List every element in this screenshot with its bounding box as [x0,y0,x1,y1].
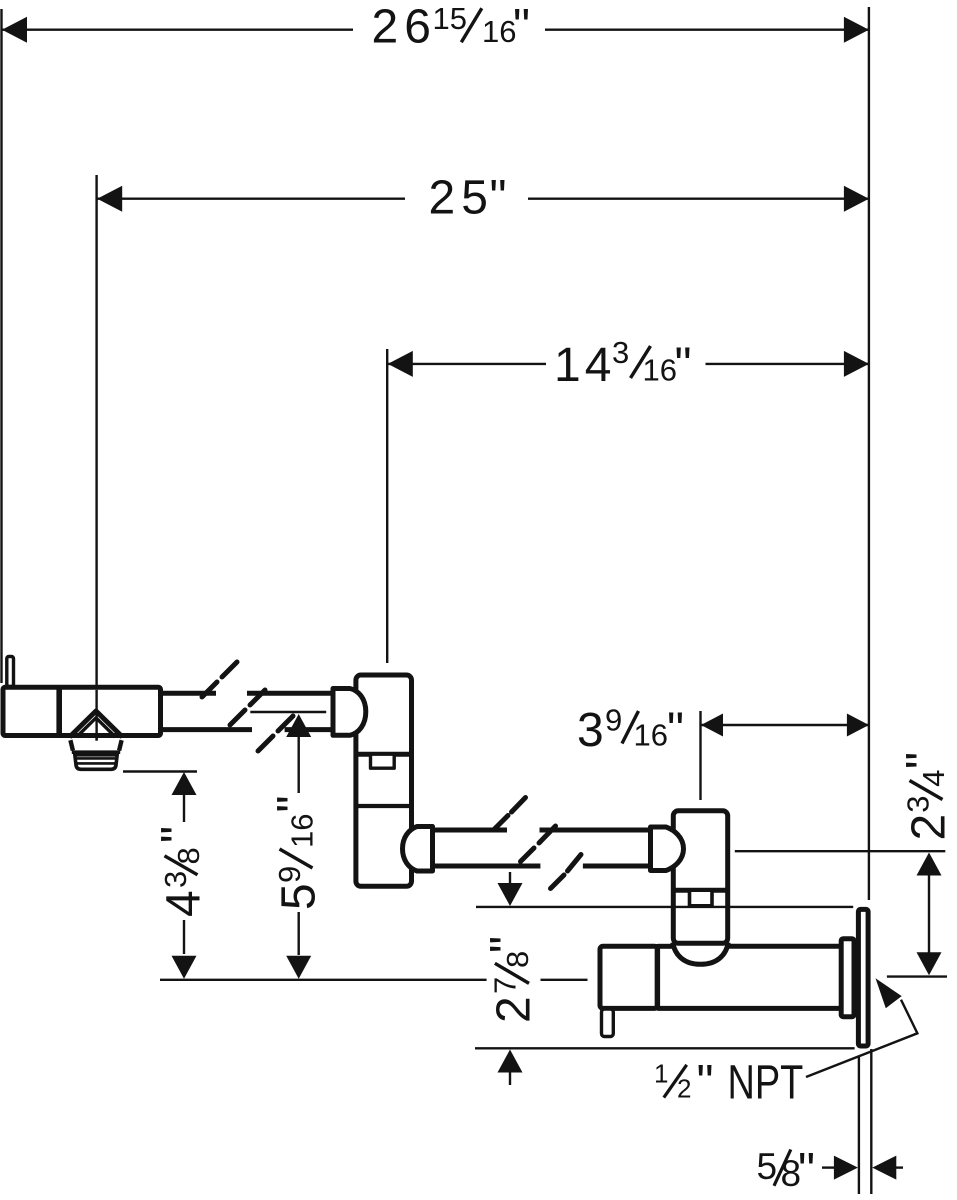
extension line 14 3/16 [386,349,388,663]
aerator tip [75,755,117,770]
14 3/16 left [388,351,413,377]
2 3/4 top (up) [917,853,942,876]
dim line 26 15/16 [2,29,353,31]
label 25" [429,172,507,225]
svg-text:8: 8 [171,847,206,864]
svg-text:9: 9 [272,866,307,883]
svg-text:16: 16 [482,14,516,49]
spout end tab [7,657,14,687]
svg-text:NPT: NPT [728,1056,804,1109]
svg-text:2: 2 [903,814,956,841]
svg-text:4: 4 [158,890,211,917]
svg-text:5: 5 [757,1146,778,1187]
valve main body fill [657,946,841,1008]
joint1 notch [371,754,395,768]
svg-text:": " [898,752,951,769]
5/8 left (right-pointing) [834,1156,858,1180]
2 3/4 bottom (down) [917,952,942,975]
3 9/16 left [701,714,723,737]
joint2 separator [673,888,727,893]
lines drawn over faucet [97,690,855,1049]
label 1/2" NPT [654,1056,803,1109]
dim line 2 3/4 [928,856,930,971]
svg-text:": " [667,704,684,757]
ref line bottom plane (4 3/8 / 5 9/16) [160,979,487,981]
svg-text:9: 9 [605,703,622,738]
first joint block [356,675,412,886]
ref line 2 3/4 bottom [887,975,947,977]
svg-text:25: 25 [429,172,494,225]
valve divider [655,944,660,1011]
dim 5/8 tails [822,1166,834,1168]
svg-text:2: 2 [677,1074,691,1104]
ref line 2 3/4 top [735,850,946,852]
svg-text:": " [513,1,530,54]
svg-text:14: 14 [554,339,615,392]
14 3/16 right [844,351,869,377]
svg-text:16: 16 [285,814,320,848]
3 9/16 right [847,714,869,737]
valve main bottom edge [657,1006,841,1011]
arm A lines [160,691,216,696]
svg-text:5: 5 [273,883,326,910]
NPT leader arrowhead [876,978,902,1008]
arm A cap (over block) [333,689,366,736]
extension line 25 through spout body [95,690,97,741]
svg-text:3: 3 [901,795,936,812]
label 2 3/4" (rotated) [898,752,956,841]
riser V-curve [673,943,728,965]
arm B cap right (over block) [651,827,684,871]
5 9/16 bottom (down) [286,956,311,979]
label 5/8" [757,1145,816,1198]
svg-text:15: 15 [433,1,467,36]
handle [602,1009,614,1037]
leader 1/2 NPT [806,1000,917,1077]
svg-text:4: 4 [916,770,951,787]
svg-text:16: 16 [634,718,668,753]
label 14 3/16" [554,335,692,392]
5/8 right (left-pointing) [872,1156,896,1180]
ref line 2 7/8 bottom (flange bottom) [475,1047,855,1049]
joint1 separator 2 [356,804,412,808]
label 5 9/16" (rotated) [269,795,326,910]
dim 2 7/8 stubs [509,872,511,886]
extension line 25 [95,175,97,741]
joint1 separator 1 [356,752,412,757]
extension line right wall [868,7,870,900]
ref line 2 7/8 top (flange top) [476,906,853,908]
aerator chevron inner [77,718,116,737]
valve left rect [600,946,657,1008]
svg-text:1: 1 [654,1059,668,1089]
extension line 3 9/16 [699,711,701,800]
svg-text:": " [675,339,692,392]
svg-text:3: 3 [158,871,193,888]
svg-text:": " [697,1057,714,1110]
arm B cap left (over block) [403,827,433,872]
second joint block [673,811,727,944]
5 9/16 top (up) [286,714,311,737]
ref line 4 3/8 top (aerator outlet) [123,770,197,772]
dim 4 3/8 stubs [183,794,185,822]
wall plate [858,909,868,1046]
joint2 notch [690,890,713,906]
26 15/16 right [844,17,869,43]
2 7/8 bottom (up, outside) [498,1050,523,1073]
aerator collar [70,740,121,750]
svg-text:7: 7 [488,977,523,994]
4 3/8 top (up) [172,772,197,795]
spout divider [56,687,62,735]
svg-text:2: 2 [488,996,541,1023]
spout body [3,687,161,735]
2 7/8 top (down, outside) [498,883,523,906]
dim line 14 3/16 [387,363,546,365]
ref line 5 9/16 top (arm centerline) [250,711,326,713]
label 26 15/16" [372,1,531,54]
svg-text:": " [798,1145,815,1198]
svg-text:3: 3 [612,335,629,370]
svg-text:": " [153,826,206,843]
dim line 3 9/16 [701,724,869,726]
break 2 dashes [495,798,582,889]
26 15/16 left [2,17,27,43]
dim 5 9/16 stubs [298,735,300,793]
label 2 7/8" (rotated) [482,936,541,1023]
svg-text:16: 16 [643,353,677,388]
break 1 dashes [202,662,293,751]
label 3 9/16" [577,703,684,758]
ext lines 5/8 [858,1056,860,1194]
svg-text:3: 3 [577,704,604,757]
svg-text:": " [490,172,507,225]
25 right [844,186,869,212]
dim line 25 [97,197,405,199]
arm B lines [433,828,508,833]
aerator chevron outer [70,711,123,737]
svg-text:26: 26 [372,1,437,54]
valve main top edges [657,944,673,949]
4 3/8 bottom (down) [172,956,197,979]
svg-text:": " [269,795,322,812]
25 left [97,186,122,212]
svg-text:": " [482,936,535,953]
label 4 3/8" (rotated) [153,826,211,917]
extension line left (26 15/16) [0,9,2,683]
collar [841,939,854,1017]
